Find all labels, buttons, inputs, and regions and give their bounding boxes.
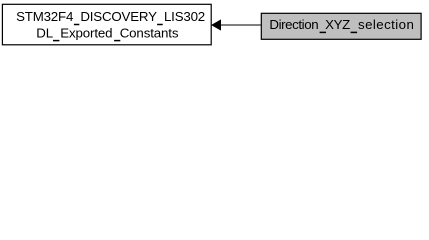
underscore bars line 2 [53,40,59,42]
wire edge line [220,24,262,26]
arrowhead [212,20,221,30]
underscore bars right label [320,32,326,34]
svg-text:_selection: _selection [349,17,414,32]
svg-text:STM32F4_DISCOVERY_LIS302: STM32F4_DISCOVERY_LIS302 [16,9,205,24]
svg-text:Direction_XYZ: Direction_XYZ [269,17,350,32]
node Direction_XYZ_selection box [261,13,421,39]
background [0,0,429,52]
node STM32F4_DISCOVERY_LIS302DL_Exported_Constants box [2,4,211,45]
underscore bars line 1 [74,24,79,26]
